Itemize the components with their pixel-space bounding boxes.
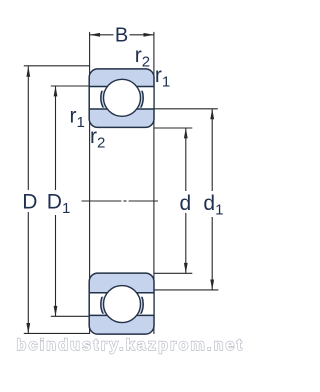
d1 dimension line: [211, 109, 213, 290]
D1 dimension line: [55, 86, 57, 316]
d1 arrowheads: [210, 109, 214, 119]
D arrowheads: [26, 66, 30, 76]
d extension line bottom: [154, 272, 192, 274]
lower race groove shoulders: [101, 283, 143, 325]
lower bearing ring section: [89, 273, 154, 334]
lower ball: [104, 286, 141, 323]
B dimension line: [90, 34, 154, 36]
d1 extension line bottom: [154, 289, 218, 291]
label white boxes: [20, 190, 39, 212]
D extension line bottom: [24, 332, 90, 334]
svg-text:D1: D1: [47, 190, 71, 217]
upper gap strip (between rings): [90, 87, 153, 108]
d arrowheads: [184, 128, 188, 138]
D dimension line: [27, 66, 29, 333]
upper race groove shoulders: [101, 77, 143, 119]
svg-text:r2: r2: [90, 125, 105, 152]
left face extension line: [89, 32, 91, 334]
svg-text:r2: r2: [135, 44, 150, 71]
D1 extension line bottom: [51, 315, 90, 317]
svg-text:bcindustry.kazprom.net: bcindustry.kazprom.net: [17, 337, 245, 354]
centerline (bearing axis, dash-dot): [82, 200, 159, 202]
D1 arrowheads: [54, 86, 58, 96]
d dimension line: [185, 128, 187, 273]
lower gap strip: [90, 293, 153, 314]
B arrowheads: [90, 33, 100, 37]
d1 extension line top: [154, 108, 218, 110]
right face extension line: [153, 32, 155, 334]
d extension line top: [154, 127, 192, 129]
upper bearing ring section (outer+inner ring): [89, 69, 154, 128]
D1 extension line top: [51, 85, 90, 87]
svg-text:r1: r1: [155, 64, 170, 91]
svg-text:d: d: [180, 192, 192, 215]
svg-text:r1: r1: [70, 104, 85, 131]
svg-text:B: B: [115, 25, 128, 47]
upper ball: [104, 79, 141, 116]
D extension line top: [24, 65, 90, 67]
svg-text:D: D: [22, 190, 37, 213]
